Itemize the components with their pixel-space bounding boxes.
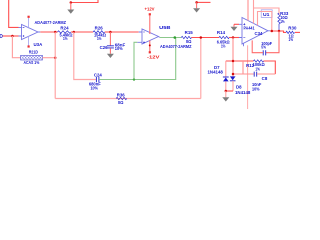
U1 top pin 3 arc to output bbox=[258, 12, 272, 32]
green node at x=134 bbox=[133, 78, 135, 80]
wire top-left vertical into U3A inverting input bbox=[9, 0, 19, 27]
ground top-left bbox=[67, 1, 74, 13]
diode D8 bbox=[230, 76, 251, 95]
wire R30 to right edge bbox=[295, 31, 300, 33]
U1 bottom pin stub bbox=[243, 43, 245, 46]
resistor R21D (box with X pattern) bbox=[21, 50, 43, 65]
bottom rail bbox=[55, 98, 201, 100]
svg-text:U5B: U5B bbox=[159, 25, 171, 30]
svg-text:-12V: -12V bbox=[147, 54, 161, 59]
op-amp U5B bbox=[137, 25, 191, 49]
green wire up to U5B + input bbox=[134, 42, 137, 79]
svg-text:C8: C8 bbox=[262, 76, 268, 81]
resistor R15 bbox=[181, 30, 193, 44]
svg-text:R26: R26 bbox=[95, 26, 104, 31]
node U3A output junction bbox=[54, 31, 57, 34]
node R12 row / inv net bbox=[232, 60, 235, 63]
wire R24 to R26 bbox=[71, 31, 93, 33]
U1 top pin 2 with rail to R33 bbox=[254, 0, 280, 23]
svg-text:D8: D8 bbox=[236, 85, 242, 90]
svg-text:5%: 5% bbox=[261, 45, 266, 50]
svg-text:1%: 1% bbox=[280, 19, 285, 24]
svg-text:R30: R30 bbox=[288, 26, 297, 31]
svg-text:1N4148: 1N4148 bbox=[208, 69, 224, 74]
node output / comp pin arc bbox=[271, 30, 274, 33]
wire link R12 row to C8 row bbox=[242, 61, 244, 74]
port IN bbox=[0, 35, 3, 38]
U1 top power pin bbox=[247, 0, 249, 21]
wire bottom rail up to R15 node bbox=[200, 38, 202, 99]
svg-text:0Ω: 0Ω bbox=[186, 39, 192, 44]
wire U1 -Vs pin down bbox=[247, 45, 249, 109]
resistor R36 bbox=[116, 93, 126, 105]
svg-text:1%: 1% bbox=[63, 36, 68, 41]
svg-text:R21D: R21D bbox=[29, 50, 38, 55]
ground at diodes bbox=[225, 91, 227, 97]
wire R14 to U1 inverting input bbox=[229, 37, 239, 39]
svg-text:1%: 1% bbox=[221, 43, 226, 48]
svg-text:U1: U1 bbox=[263, 12, 270, 17]
svg-text:C24: C24 bbox=[94, 72, 103, 77]
ground mid top bbox=[193, 1, 210, 12]
node diode common bbox=[225, 90, 228, 93]
svg-text:U3A: U3A bbox=[34, 42, 43, 47]
svg-text:+12V: +12V bbox=[145, 7, 156, 12]
svg-text:10%: 10% bbox=[252, 86, 260, 91]
diode D7 bbox=[208, 61, 229, 91]
node U1 inverting input bbox=[232, 36, 235, 39]
capacitor C24 bbox=[89, 72, 103, 90]
wire feedback row to R12 bbox=[226, 60, 254, 62]
node C8 row / inv net bbox=[232, 73, 235, 76]
resistor R26 bbox=[93, 26, 106, 41]
svg-text:ADA4077-2ARMZ: ADA4077-2ARMZ bbox=[35, 20, 67, 25]
node R24/R26/C24 junction bbox=[73, 31, 76, 34]
wire diode common bottom bbox=[226, 90, 233, 92]
wire C8 row right bbox=[257, 73, 275, 75]
svg-text:1%: 1% bbox=[255, 67, 260, 72]
wire down to C24 bbox=[74, 32, 96, 80]
wire port to U3A + input bbox=[3, 35, 19, 37]
wire down to R21D bbox=[12, 36, 20, 58]
svg-text:ADA4077-2ARMZ: ADA4077-2ARMZ bbox=[160, 44, 192, 49]
op-amp U1 PA441 bbox=[239, 10, 272, 44]
wire top rail y=2.5 bbox=[71, 0, 98, 3]
svg-text:1N4148: 1N4148 bbox=[235, 90, 251, 95]
node R21D right / feedback junction bbox=[54, 56, 57, 59]
svg-text:10%: 10% bbox=[90, 85, 98, 90]
wire R15 to R14 bbox=[192, 37, 220, 39]
svg-text:0Ω: 0Ω bbox=[118, 100, 124, 105]
svg-text:1%: 1% bbox=[97, 36, 102, 41]
-12V supply U5B bbox=[147, 40, 161, 59]
node input junction bbox=[11, 35, 14, 38]
green wire C24 to feedback rail bbox=[99, 38, 176, 80]
node sense junction bbox=[200, 36, 203, 39]
capacitor C34 feedback bbox=[252, 31, 279, 55]
+12V supply U5B bbox=[145, 7, 156, 34]
svg-text:R15: R15 bbox=[185, 30, 194, 35]
resistor R33 bbox=[278, 11, 289, 31]
svg-text:C34: C34 bbox=[255, 31, 264, 36]
op-amp U3A bbox=[19, 16, 67, 48]
wire U3A output to R24 bbox=[40, 31, 57, 33]
resistor R30 bbox=[286, 26, 297, 43]
node C26 junction bbox=[109, 31, 112, 34]
green wire U5B output to R15 bbox=[160, 37, 182, 39]
node output / R33-C34 bbox=[278, 30, 281, 33]
wire R12 right to C8 right bbox=[264, 61, 276, 74]
wire R21D right to node bbox=[42, 57, 55, 59]
capacitor C8 bbox=[252, 72, 268, 92]
svg-text:R14: R14 bbox=[217, 30, 226, 35]
capacitor C26 to ground bbox=[100, 32, 126, 58]
svg-text:R24: R24 bbox=[60, 26, 69, 31]
wire C8 row left bbox=[233, 73, 254, 75]
wire node down to bottom rail bbox=[54, 32, 56, 99]
ground at U1 + input bbox=[231, 24, 240, 31]
svg-text:C26: C26 bbox=[100, 45, 109, 50]
resistor R14 bbox=[217, 30, 230, 48]
resistor R24 bbox=[58, 26, 73, 41]
wire U1 output row bbox=[270, 31, 286, 32]
svg-text:ACAS 1%: ACAS 1% bbox=[24, 60, 40, 65]
svg-text:PA441: PA441 bbox=[244, 25, 255, 30]
wire U1 inv node down bbox=[232, 38, 234, 77]
svg-text:R36: R36 bbox=[117, 93, 126, 98]
resistor R12 bbox=[246, 60, 265, 72]
wire R26 to U5B bbox=[105, 31, 139, 33]
svg-text:10%: 10% bbox=[115, 46, 123, 51]
svg-text:1%: 1% bbox=[289, 37, 294, 42]
